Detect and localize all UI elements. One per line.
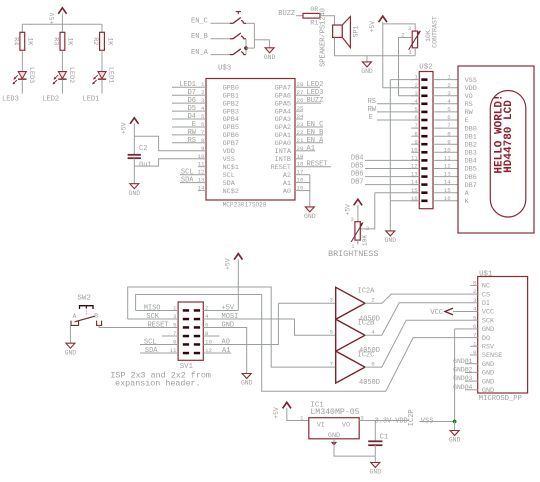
svg-text:C2: C2 [139, 145, 147, 153]
svg-text:DB3: DB3 [465, 150, 477, 158]
svg-text:A: A [73, 313, 77, 320]
wire SDA [140, 352, 162, 354]
wire LCD K [390, 200, 419, 202]
svg-text:3: 3 [173, 313, 177, 320]
LCD pin names [465, 77, 477, 206]
wire [454, 422, 456, 431]
svg-text:12: 12 [198, 169, 205, 176]
svg-text:27: 27 [297, 89, 304, 96]
wire D5 to MCP pin 4 [172, 110, 198, 112]
svg-text:6: 6 [371, 361, 375, 368]
svg-text:8: 8 [473, 280, 477, 287]
svg-text:RW: RW [188, 129, 197, 137]
wire IC2C out to card SCK [365, 320, 470, 367]
svg-text:A: A [465, 190, 470, 198]
svg-text:DI: DI [482, 300, 490, 308]
svg-text:BUZZ: BUZZ [278, 10, 295, 18]
svg-text:6: 6 [447, 114, 451, 121]
wire E to MCP pin 6 [172, 126, 198, 128]
wire EN_C from MCP [303, 126, 323, 128]
wire GND@1 [465, 363, 470, 365]
svg-text:9: 9 [447, 138, 451, 145]
wire EN_A from MCP [303, 142, 323, 144]
IC LM340 regulator IC1 body [309, 418, 359, 439]
wire +5V rail [22, 23, 102, 25]
wire SCK to IC2C input [128, 287, 336, 367]
svg-text:20: 20 [297, 145, 304, 152]
svg-text:0R: 0R [310, 6, 318, 14]
wire SW2 to RESET [99, 325, 162, 327]
LCD module HD44780 body [458, 66, 534, 233]
svg-text:EN_B: EN_B [191, 33, 208, 41]
wire LED2 from MCP [303, 86, 320, 88]
svg-text:DO: DO [482, 335, 490, 343]
svg-text:7: 7 [173, 330, 177, 337]
svg-text:SCK: SCK [146, 313, 159, 321]
svg-text:LED1: LED1 [83, 95, 100, 103]
wire LED1 to MCP pin 1 [172, 86, 198, 88]
+5V supply [49, 8, 67, 24]
wire LCD VSS [390, 79, 419, 81]
svg-text:21: 21 [297, 137, 304, 144]
svg-text:3: 3 [447, 90, 451, 97]
trimmer BRIGHTNESS 10K [350, 216, 369, 250]
wire card GND down [454, 329, 456, 422]
svg-text:GPB3: GPB3 [223, 108, 239, 116]
svg-text:9: 9 [473, 349, 477, 356]
wire +5V [219, 310, 238, 312]
wire [320, 16, 335, 25]
+5V supply [369, 16, 387, 32]
power +5V (LCD) [369, 16, 387, 32]
svg-text:LED3: LED3 [307, 89, 324, 97]
svg-text:SDA: SDA [181, 177, 194, 185]
svg-text:7: 7 [330, 361, 334, 368]
svg-text:11: 11 [198, 161, 205, 168]
svg-text:A2: A2 [283, 172, 291, 180]
wire [303, 174, 310, 176]
wires U$2 to LCD [433, 74, 458, 202]
svg-text:RW: RW [368, 106, 377, 114]
wire EN_B from MCP [303, 134, 323, 136]
svg-text:DB4: DB4 [465, 158, 477, 166]
svg-text:expansion header.: expansion header. [115, 378, 200, 388]
wire RS [377, 103, 419, 105]
wire GND@4 [465, 389, 470, 391]
svg-text:28: 28 [297, 81, 304, 88]
svg-text:HD44780 LCD: HD44780 LCD [503, 100, 515, 173]
svg-text:MISO: MISO [144, 305, 161, 313]
svg-text:GPB5: GPB5 [223, 124, 239, 132]
wire [366, 56, 368, 62]
svg-text:D6: D6 [188, 97, 196, 105]
svg-text:GND: GND [482, 378, 494, 386]
wire SDA [180, 182, 198, 184]
svg-text:E: E [369, 114, 373, 122]
svg-text:D5: D5 [188, 105, 196, 113]
svg-text:8: 8 [447, 130, 451, 137]
junction (encoder common) [244, 46, 248, 50]
wire contrast wiper to VO [399, 38, 413, 96]
svg-text:VSS: VSS [223, 156, 235, 164]
svg-text:+5V: +5V [222, 305, 235, 313]
svg-text:NC: NC [482, 283, 490, 291]
svg-text:RSV: RSV [482, 344, 495, 352]
svg-text:15: 15 [444, 187, 451, 194]
svg-text:LED3: LED3 [2, 95, 19, 103]
svg-text:SENSE: SENSE [482, 352, 502, 360]
LCD screen outline [490, 91, 526, 218]
svg-text:A1: A1 [222, 347, 230, 355]
svg-text:DB1: DB1 [465, 133, 477, 141]
svg-text:GND: GND [449, 437, 461, 444]
svg-text:D7: D7 [188, 89, 196, 97]
svg-text:A1: A1 [307, 145, 315, 153]
svg-text:5: 5 [330, 329, 334, 336]
svg-text:LED2: LED2 [307, 81, 324, 89]
svg-text:GPA1: GPA1 [275, 132, 291, 140]
power +5V (SV1) [225, 254, 243, 270]
wire DB4 [365, 159, 419, 161]
svg-text:4: 4 [473, 306, 477, 313]
wire [101, 50, 103, 71]
IC1 pin labels [317, 421, 350, 439]
svg-text:SCL: SCL [144, 339, 157, 347]
svg-text:E: E [192, 121, 196, 129]
svg-text:12: 12 [205, 347, 212, 354]
svg-text:DB4: DB4 [351, 155, 364, 163]
svg-text:E: E [465, 117, 469, 125]
wire +5V to LCD VDD [383, 87, 420, 89]
svg-text:6: 6 [201, 121, 205, 128]
trimmer CONTRAST 10K [401, 16, 438, 56]
svg-text:SP1: SP1 [353, 26, 360, 38]
wire A0 to IC2A input [278, 302, 335, 304]
wire [211, 38, 230, 40]
svg-text:MOSI: MOSI [222, 313, 239, 321]
switch EN_A (encoder U$3) [230, 49, 246, 55]
svg-text:GND: GND [304, 213, 316, 220]
svg-text:9: 9 [173, 339, 177, 346]
svg-text:A0: A0 [283, 188, 291, 196]
wire LCD A (backlight) [375, 192, 420, 194]
svg-text:9: 9 [201, 145, 205, 152]
svg-text:+5V: +5V [369, 21, 376, 33]
svg-text:11: 11 [170, 347, 177, 354]
ground (SW2) [65, 343, 77, 356]
wire SCL [180, 174, 198, 176]
wire +5V to MCP VDD [134, 136, 198, 151]
wire DB6 [365, 176, 419, 178]
wire GND@2 [465, 371, 470, 373]
svg-text:GND: GND [361, 68, 373, 75]
wire [245, 39, 247, 48]
switch SW2 [71, 306, 102, 326]
wire IC1 GND [334, 439, 375, 456]
wire [61, 24, 63, 32]
+5V supply [121, 118, 139, 134]
wire [246, 22, 254, 24]
wire D7 to MCP pin 2 [172, 94, 198, 96]
svg-text:3: 3 [201, 97, 205, 104]
svg-text:3: 3 [330, 297, 334, 304]
svg-text:LED2: LED2 [42, 95, 59, 103]
svg-text:5: 5 [473, 314, 477, 321]
svg-text:GND: GND [65, 349, 77, 356]
svg-text:IC2B: IC2B [358, 320, 375, 328]
svg-text:GPA6: GPA6 [275, 92, 291, 100]
svg-text:SDA: SDA [223, 180, 236, 188]
wire MOSI to IC2B input [295, 319, 336, 335]
svg-text:10K: 10K [362, 235, 369, 246]
ground (C2) [129, 184, 141, 197]
svg-text:1: 1 [409, 49, 413, 56]
wire SV1 GND [219, 328, 246, 374]
wire [309, 175, 311, 207]
microSD pin names [482, 283, 502, 395]
svg-text:VSS: VSS [465, 77, 477, 85]
wire DB7 [365, 184, 419, 186]
wire [357, 240, 359, 244]
svg-text:RW: RW [465, 109, 474, 117]
ground (MCP address pins) [304, 207, 316, 220]
wire [61, 14, 63, 25]
svg-text:GND: GND [129, 190, 141, 197]
svg-text:+5V: +5V [121, 122, 128, 134]
svg-text:1: 1 [447, 74, 451, 81]
svg-text:IC2C: IC2C [358, 352, 375, 360]
svg-text:+5V: +5V [225, 258, 232, 270]
wire IC2P VSS to GND [420, 421, 455, 423]
svg-text:R3: R3 [51, 37, 59, 45]
svg-text:U$3: U$3 [218, 65, 231, 73]
wire D6 to MCP pin 3 [172, 102, 198, 104]
svg-text:DB2: DB2 [465, 141, 477, 149]
svg-text:17: 17 [297, 169, 304, 176]
svg-text:5: 5 [201, 113, 205, 120]
svg-text:DB5: DB5 [351, 163, 364, 171]
svg-text:4: 4 [447, 98, 451, 105]
svg-text:LED3: LED3 [27, 67, 35, 83]
svg-text:16: 16 [444, 195, 451, 202]
wire [245, 48, 247, 55]
wire [254, 39, 269, 41]
IC MCP23017 U$4 body [206, 79, 295, 201]
wire [61, 79, 63, 93]
wire SCK [128, 318, 162, 320]
svg-text:GND@3: GND@3 [453, 375, 472, 382]
ground (encoder) [264, 48, 276, 61]
svg-text:2: 2 [205, 305, 209, 312]
svg-text:IC2P: IC2P [408, 409, 416, 426]
svg-text:1: 1 [300, 414, 304, 421]
wire GND rail (speaker/pot) [335, 55, 416, 57]
svg-text:C1: C1 [380, 434, 388, 442]
svg-text:MCP23017SO28: MCP23017SO28 [223, 202, 267, 209]
wire DB5 [365, 168, 419, 170]
wire backlight to brightness wiper [361, 193, 375, 229]
resistor R1 0R [303, 6, 320, 27]
svg-text:EN_A: EN_A [191, 49, 209, 57]
wire A0 to IC2A [219, 303, 278, 344]
svg-text:4: 4 [371, 329, 375, 336]
connector U$2 body [419, 72, 433, 209]
svg-text:VO: VO [342, 421, 350, 429]
svg-text:3: 3 [408, 25, 412, 32]
svg-text:2: 2 [371, 297, 375, 304]
buffer IC2A 4050D [330, 287, 381, 323]
svg-text:8: 8 [201, 137, 205, 144]
svg-text:10: 10 [205, 339, 212, 346]
svg-text:GND@2: GND@2 [453, 367, 472, 374]
wire RESET from MCP [303, 166, 331, 168]
svg-text:SCK: SCK [482, 317, 495, 325]
svg-text:GPA5: GPA5 [275, 100, 291, 108]
svg-text:DB6: DB6 [465, 174, 477, 182]
svg-text:D4: D4 [188, 113, 196, 121]
wire [21, 50, 23, 71]
svg-text:24: 24 [297, 113, 304, 120]
svg-text:22: 22 [297, 129, 304, 136]
connector U$2 pins [411, 74, 428, 202]
wire [21, 79, 23, 93]
svg-text:LED1: LED1 [179, 81, 196, 89]
svg-text:2: 2 [366, 225, 370, 232]
svg-text:VDD: VDD [223, 148, 235, 156]
svg-text:14: 14 [198, 185, 205, 192]
svg-text:4: 4 [201, 105, 205, 112]
svg-text:A1: A1 [283, 180, 291, 188]
svg-text:3: 3 [350, 216, 354, 223]
+5V supply [344, 199, 362, 215]
svg-text:GND: GND [385, 237, 397, 244]
switch EN_B (encoder U$3) [230, 33, 246, 39]
svg-text:GPA0: GPA0 [275, 140, 291, 148]
svg-text:BRIGHTNESS: BRIGHTNESS [328, 249, 378, 259]
connector SV1 pins [162, 305, 219, 355]
IC1 GND pin marker [331, 442, 337, 446]
svg-text:R2: R2 [91, 37, 99, 45]
wire [374, 445, 376, 462]
svg-text:GND: GND [222, 322, 235, 330]
svg-text:15: 15 [297, 185, 304, 192]
svg-text:U$1: U$1 [479, 270, 493, 278]
svg-text:23: 23 [297, 121, 304, 128]
wire [133, 124, 135, 155]
svg-text:NC$2: NC$2 [223, 188, 239, 196]
svg-text:1: 1 [173, 305, 177, 312]
wire [237, 259, 239, 310]
wire A1 from MCP [303, 150, 315, 152]
wire D4 to MCP pin 5 [172, 118, 198, 120]
capacitor C1 [368, 434, 388, 446]
buffer IC2B 4050D [330, 319, 381, 355]
ground (card) [449, 431, 461, 444]
svg-text:GND: GND [482, 361, 494, 369]
wire [287, 408, 309, 420]
wire IC2B out to card DI [365, 303, 470, 335]
svg-text:LED1: LED1 [107, 67, 115, 83]
svg-text:EN_C: EN_C [191, 18, 208, 26]
svg-text:1K: 1K [105, 37, 113, 46]
wire [269, 40, 271, 48]
svg-text:GPA4: GPA4 [275, 108, 291, 116]
svg-text:11: 11 [444, 155, 451, 162]
svg-text:VI: VI [317, 421, 325, 429]
svg-text:R4: R4 [11, 37, 19, 45]
power +5V (LED bank) [49, 8, 67, 24]
svg-text:4: 4 [205, 313, 209, 320]
wire card GND [455, 328, 470, 330]
svg-text:+5V: +5V [49, 12, 56, 24]
svg-text:EN_B: EN_B [307, 129, 324, 137]
wire MOSI [219, 318, 294, 320]
wire [211, 22, 230, 24]
svg-text:VCC: VCC [430, 309, 443, 317]
power +5V (IC1) [273, 402, 291, 418]
svg-text:VO: VO [465, 93, 473, 101]
svg-text:+5V: +5V [344, 204, 351, 216]
svg-text:IC2A: IC2A [358, 288, 376, 296]
wire E [377, 119, 419, 121]
svg-text:7: 7 [473, 332, 477, 339]
svg-text:CS: CS [482, 291, 490, 299]
wire BUZZ from MCP [303, 102, 321, 104]
svg-text:3.3V: 3.3V [375, 417, 393, 425]
+5V supply [225, 254, 243, 270]
svg-text:RS: RS [188, 137, 196, 145]
wire MISO [136, 310, 163, 312]
svg-text:1K: 1K [26, 37, 34, 46]
wire GND to MCP VSS [134, 159, 198, 166]
power +5V (brightness) [344, 199, 362, 215]
wire [211, 54, 230, 56]
svg-text:18: 18 [297, 161, 304, 168]
svg-text:SCL: SCL [223, 172, 235, 180]
svg-text:GND: GND [370, 469, 382, 476]
svg-text:0u1: 0u1 [139, 161, 152, 169]
svg-text:14: 14 [444, 179, 451, 186]
svg-text:5: 5 [447, 106, 451, 113]
microSD pin stubs and numbers [470, 280, 478, 390]
svg-text:GPB6: GPB6 [223, 132, 239, 140]
svg-text:SW2: SW2 [78, 295, 91, 303]
rotary encoder U$3 actuator mark [236, 12, 241, 14]
svg-text:GND: GND [482, 370, 494, 378]
resistor R3 1K [51, 32, 73, 50]
MCP23017 pin stubs and numbers [198, 81, 304, 191]
svg-text:6: 6 [205, 322, 209, 329]
wire [133, 158, 135, 184]
svg-text:GND: GND [328, 432, 340, 440]
svg-text:7: 7 [447, 122, 451, 129]
ground (speaker) [361, 62, 373, 75]
connector SV1 body [178, 302, 203, 360]
microSD socket U$1 body [478, 277, 528, 394]
svg-text:INTA: INTA [275, 148, 292, 156]
svg-text:3: 3 [473, 297, 477, 304]
svg-text:GND: GND [482, 387, 494, 395]
svg-text:1: 1 [473, 340, 477, 347]
svg-text:A0: A0 [222, 339, 230, 347]
wire IC2A out to card CS [365, 294, 470, 303]
wire RW to MCP pin 7 [172, 134, 198, 136]
wire VSS/K to GND [389, 80, 391, 231]
wire LED3 from MCP [303, 94, 320, 96]
wire [382, 22, 384, 88]
svg-text:B: B [94, 312, 98, 319]
svg-text:U$2: U$2 [419, 64, 432, 72]
